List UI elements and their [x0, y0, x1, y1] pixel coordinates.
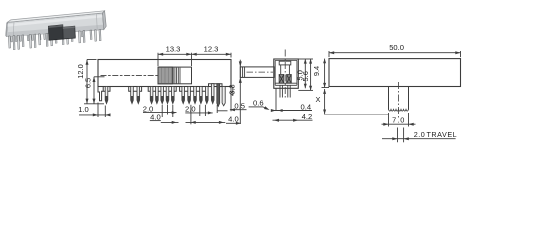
svg-text:1.0: 1.0: [78, 105, 89, 114]
svg-text:5.6: 5.6: [301, 71, 310, 81]
svg-text:50.0: 50.0: [389, 43, 404, 52]
svg-text:7: 7: [392, 116, 396, 125]
svg-text:0.6: 0.6: [253, 99, 264, 108]
svg-text:12.3: 12.3: [204, 45, 219, 54]
svg-text:.: .: [397, 116, 399, 125]
svg-text:0.5: 0.5: [234, 101, 245, 110]
svg-text:13.3: 13.3: [166, 45, 181, 54]
svg-text:0: 0: [400, 116, 404, 125]
svg-text:12.0: 12.0: [76, 64, 85, 78]
svg-text:4.0: 4.0: [150, 112, 161, 121]
svg-text:X: X: [316, 95, 321, 104]
svg-text:0.4: 0.4: [301, 102, 312, 111]
svg-text:6.5: 6.5: [84, 78, 93, 88]
svg-text:9.4: 9.4: [312, 66, 321, 76]
svg-text:2.0 TRAVEL: 2.0 TRAVEL: [414, 130, 458, 139]
svg-text:4.2: 4.2: [302, 112, 313, 121]
svg-text:3.8: 3.8: [228, 84, 237, 94]
svg-text:2.0: 2.0: [185, 104, 196, 113]
svg-text:4.0: 4.0: [228, 114, 239, 123]
